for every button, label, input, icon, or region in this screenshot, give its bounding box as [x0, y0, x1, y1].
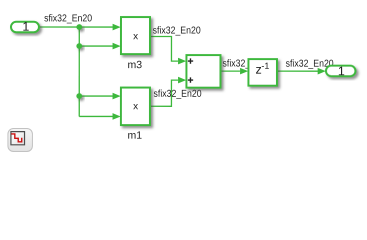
svg-text:m3: m3	[128, 59, 143, 71]
svg-text:x: x	[133, 101, 138, 112]
svg-text:m1: m1	[128, 130, 143, 142]
svg-text:1: 1	[22, 20, 29, 34]
svg-text:1: 1	[338, 64, 345, 78]
svg-text:x: x	[133, 31, 138, 42]
svg-text:sfix32_En20: sfix32_En20	[153, 25, 201, 36]
svg-text:-1: -1	[261, 61, 269, 71]
svg-text:sfix32_En20: sfix32_En20	[154, 89, 202, 100]
svg-text:sfix32_En20: sfix32_En20	[44, 13, 92, 24]
